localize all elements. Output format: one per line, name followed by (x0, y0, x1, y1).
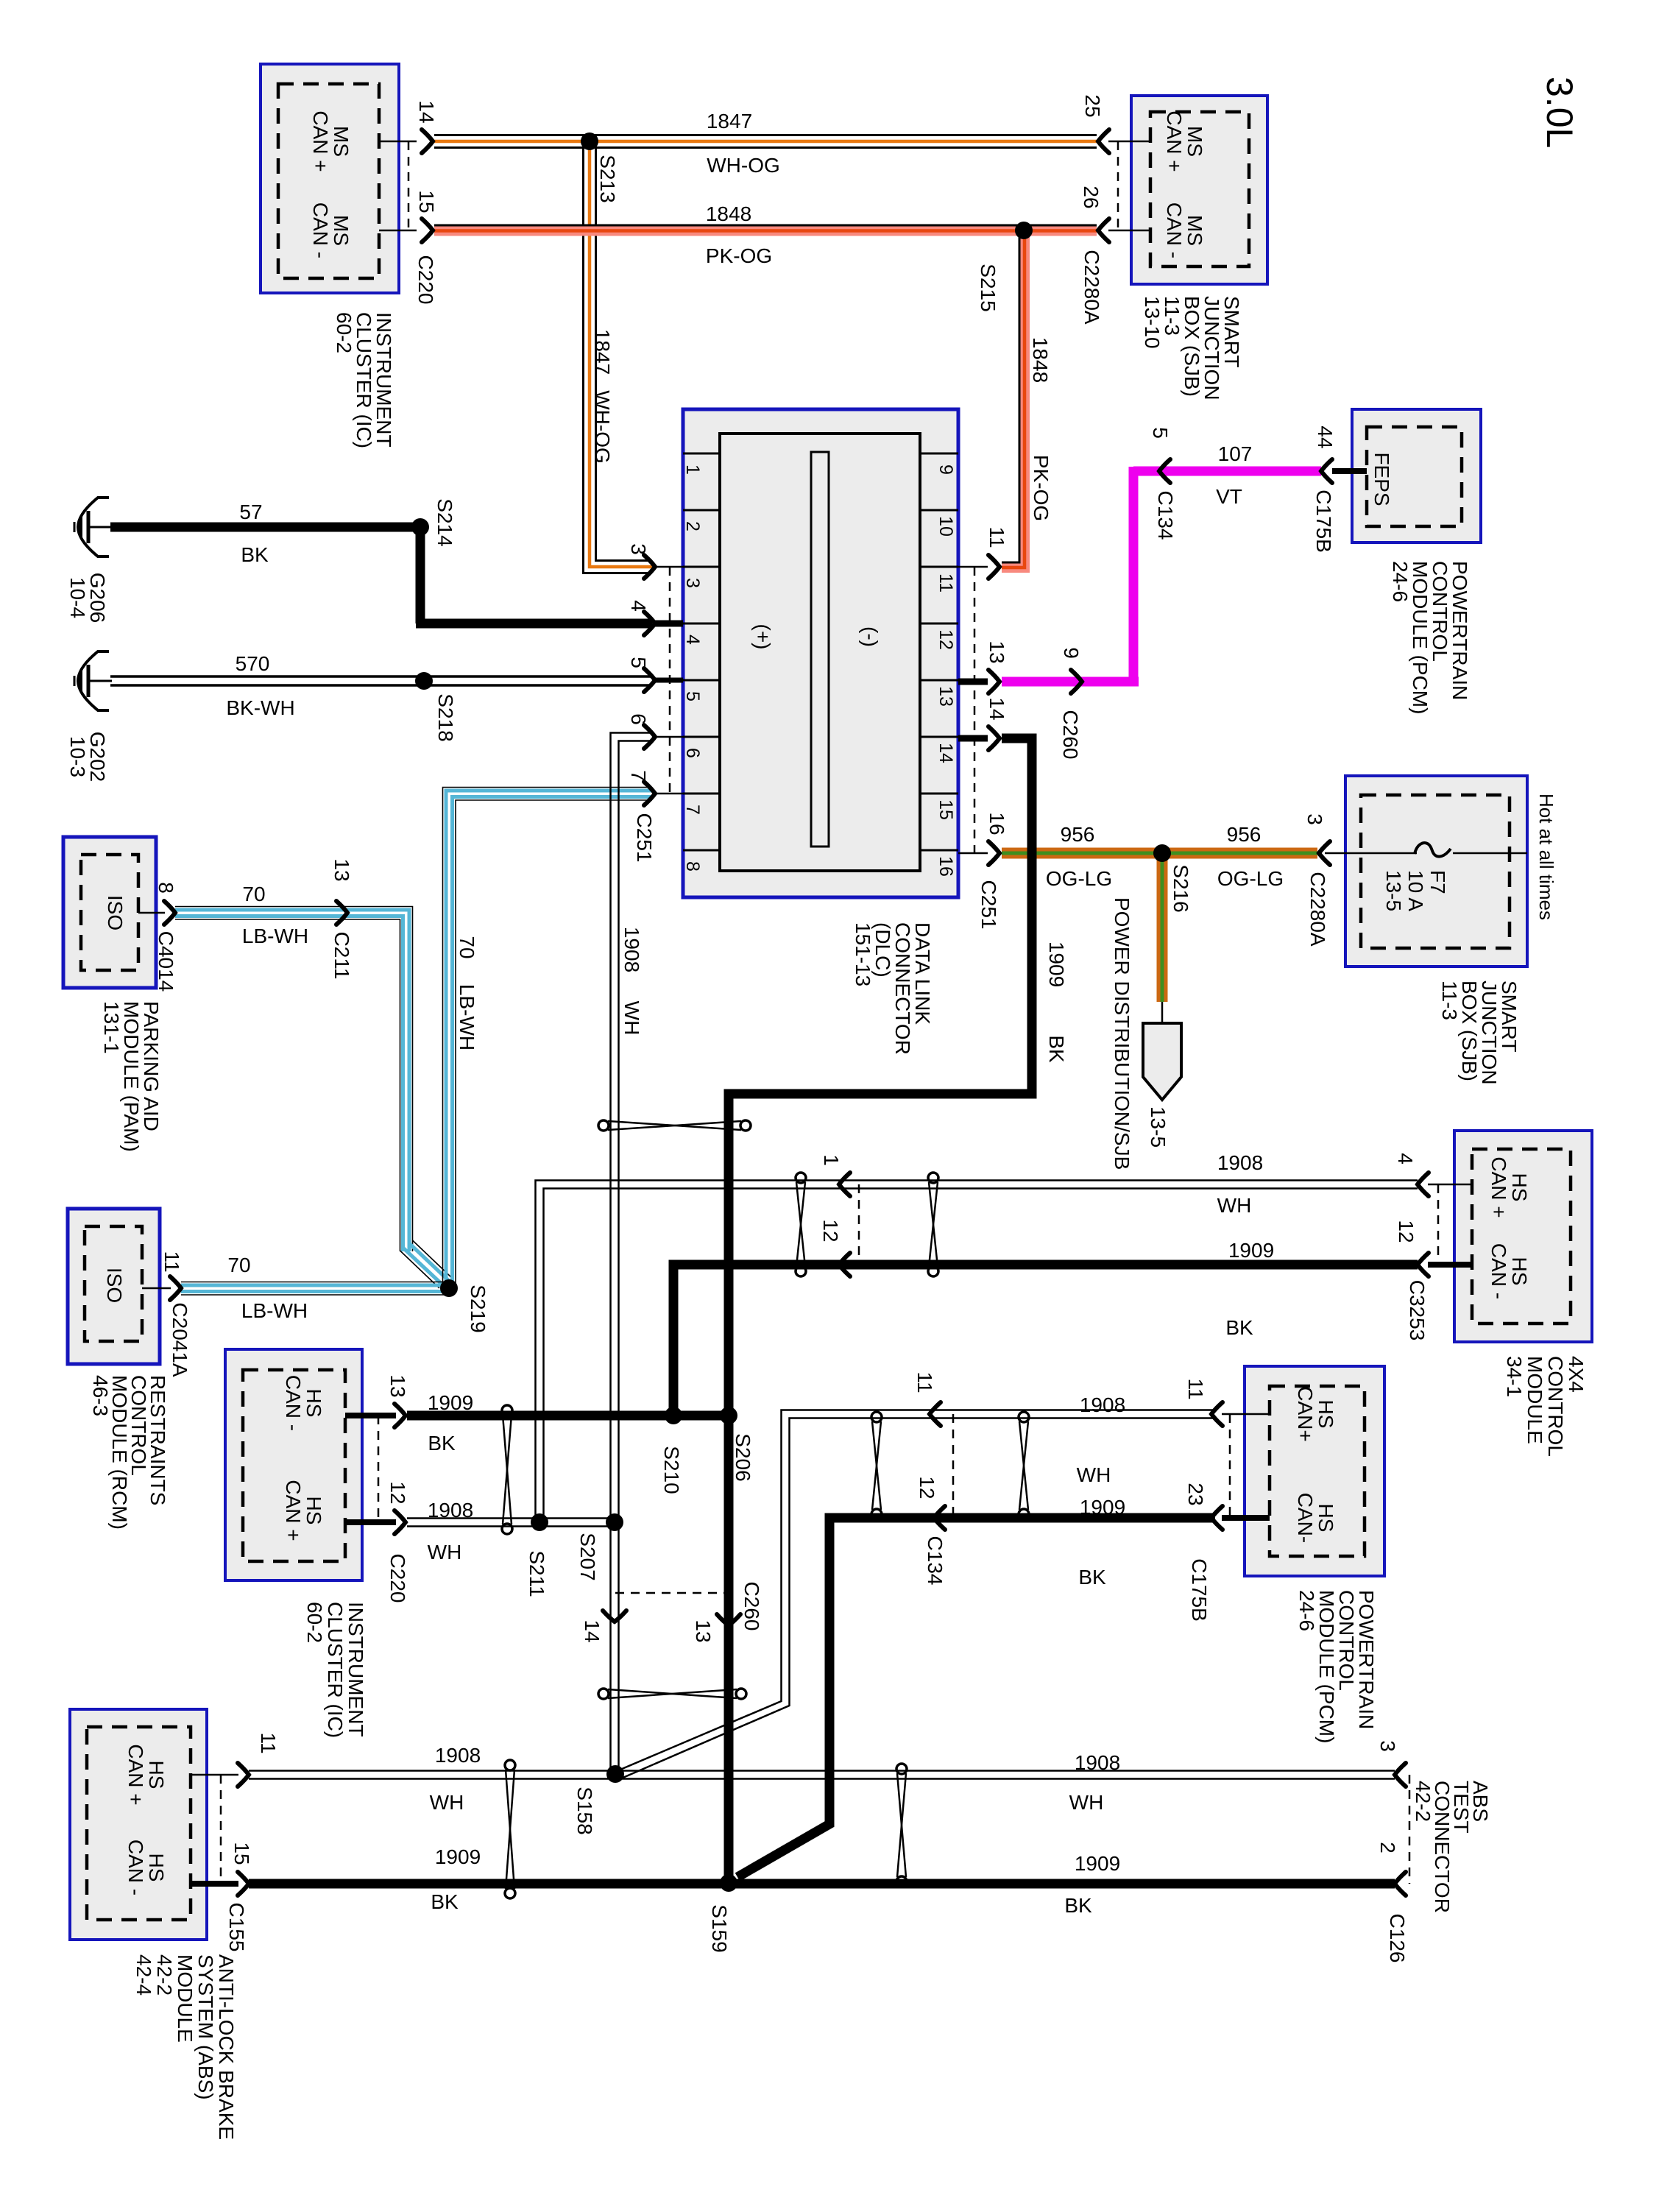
smart junction box SJB MS-CAN box (1131, 96, 1267, 284)
SJB pin 26 stub (1108, 230, 1150, 232)
svg-text:CAN+: CAN+ (1294, 1386, 1317, 1441)
svg-text:CONTROL: CONTROL (1544, 1356, 1567, 1457)
restraints control module RCM ISO box (68, 1209, 160, 1364)
svg-text:S216: S216 (1170, 864, 1192, 912)
svg-text:14: 14 (415, 100, 438, 123)
svg-text:14: 14 (581, 1619, 604, 1642)
svg-text:BK: BK (1064, 1894, 1092, 1917)
wire 1908 WH ABS to ABS test connector (249, 1770, 1395, 1772)
svg-text:CAN -: CAN - (124, 1840, 147, 1895)
twisted pair loops PCM (871, 1412, 882, 1422)
svg-text:14: 14 (986, 697, 1008, 720)
svg-text:5: 5 (682, 691, 703, 702)
svg-text:BK: BK (1045, 1035, 1068, 1063)
svg-text:1909: 1909 (428, 1391, 473, 1414)
svg-text:42-4: 42-4 (132, 1954, 155, 1996)
svg-text:C3253: C3253 (1406, 1280, 1429, 1341)
junction S210 (665, 1407, 682, 1424)
svg-text:LB-WH: LB-WH (456, 984, 478, 1050)
ABS pin 15 stub (191, 1881, 238, 1887)
svg-text:1908: 1908 (620, 927, 643, 972)
svg-text:13: 13 (986, 640, 1008, 663)
svg-text:956: 956 (1061, 823, 1095, 846)
4X4 pin 12 stub (1428, 1262, 1472, 1268)
wire 1909 BK DLC pin14 bus (729, 738, 1032, 1883)
svg-text:11: 11 (986, 526, 1008, 548)
connector C211 arrow on 70 wire (336, 901, 347, 925)
4X4 pin 4 stub (1428, 1184, 1472, 1186)
svg-text:60-2: 60-2 (303, 1602, 326, 1643)
PCM pin 11 stub (1222, 1413, 1270, 1416)
svg-text:CLUSTER (IC): CLUSTER (IC) (324, 1602, 347, 1738)
svg-text:S218: S218 (434, 693, 457, 741)
wire 1908 WH IC to S211 S207 (407, 1517, 615, 1519)
svg-text:2: 2 (1376, 1842, 1399, 1854)
svg-text:WH: WH (428, 1541, 462, 1563)
svg-text:14: 14 (935, 743, 956, 763)
svg-text:F7: F7 (1426, 870, 1449, 894)
wire 107 VT FEPS to DLC pin13 (1133, 467, 1321, 476)
4X4 control module box (1454, 1131, 1592, 1342)
svg-text:8: 8 (155, 882, 177, 894)
DLC left dashed connector line (669, 567, 671, 794)
svg-text:1909: 1909 (435, 1845, 481, 1868)
IC HS pin 12 stub (345, 1519, 396, 1525)
svg-text:3: 3 (627, 543, 650, 555)
svg-text:C175B: C175B (1188, 1558, 1211, 1622)
svg-text:C220: C220 (386, 1554, 409, 1603)
svg-text:SYSTEM (ABS): SYSTEM (ABS) (194, 1954, 217, 2100)
svg-text:151-13: 151-13 (852, 922, 874, 986)
powertrain control module FEPS box (1352, 409, 1481, 543)
svg-text:2: 2 (682, 521, 703, 531)
svg-text:570: 570 (236, 652, 270, 675)
svg-text:CAN +: CAN + (1487, 1156, 1510, 1218)
svg-text:1: 1 (820, 1154, 843, 1166)
svg-text:10-4: 10-4 (66, 577, 89, 618)
svg-text:4X4: 4X4 (1565, 1356, 1588, 1393)
svg-text:1909: 1909 (1045, 941, 1068, 987)
svg-text:Hot at all times: Hot at all times (1535, 794, 1557, 920)
connector C260 arrow down on 1908 (603, 1611, 626, 1622)
smart junction box SJB fuse box (1345, 776, 1527, 967)
svg-text:WH: WH (620, 1001, 643, 1036)
svg-text:CAN -: CAN - (282, 1375, 305, 1431)
wire 1909 BK IC to S210 S206 (407, 1411, 729, 1421)
junction S158 (606, 1765, 624, 1783)
svg-text:PK-OG: PK-OG (1030, 455, 1052, 521)
svg-text:3: 3 (1303, 813, 1326, 825)
parking aid module PAM ISO box (63, 837, 156, 988)
svg-text:ISO: ISO (104, 895, 127, 930)
svg-text:S213: S213 (596, 155, 619, 202)
svg-text:HS: HS (1508, 1257, 1531, 1286)
svg-text:131-1: 131-1 (100, 1001, 123, 1054)
svg-text:CAN +: CAN + (309, 110, 332, 172)
wire 1908 WH DLC pin6 down to S158 (611, 733, 653, 1775)
svg-text:C211: C211 (330, 932, 353, 980)
svg-text:44: 44 (1314, 425, 1337, 448)
data link connector DLC box (683, 409, 958, 897)
junction S159 (720, 1874, 737, 1892)
svg-text:ISO: ISO (103, 1268, 126, 1303)
svg-text:1909: 1909 (1075, 1852, 1120, 1875)
wire 1847 WH-OG vertical S213 to DLC pin3 (596, 147, 653, 561)
svg-text:C220: C220 (414, 255, 437, 305)
svg-text:S158: S158 (573, 1787, 596, 1834)
svg-text:46-3: 46-3 (89, 1375, 112, 1416)
svg-text:BK: BK (1078, 1566, 1106, 1589)
svg-text:1847: 1847 (707, 110, 752, 132)
svg-text:CAN -: CAN - (1487, 1243, 1510, 1299)
junction S218 (415, 672, 433, 690)
svg-text:15: 15 (415, 190, 438, 213)
svg-text:12: 12 (916, 1476, 938, 1499)
svg-text:S207: S207 (576, 1533, 599, 1580)
svg-text:C175B: C175B (1312, 490, 1335, 553)
svg-text:24-6: 24-6 (1389, 561, 1412, 602)
svg-text:1908: 1908 (1217, 1151, 1263, 1174)
svg-text:11: 11 (160, 1251, 183, 1272)
svg-text:6: 6 (682, 748, 703, 758)
svg-text:1908: 1908 (1080, 1393, 1125, 1416)
svg-text:1: 1 (682, 464, 703, 475)
svg-text:11: 11 (935, 573, 956, 593)
svg-text:1908: 1908 (435, 1744, 481, 1767)
svg-text:1848: 1848 (706, 202, 751, 225)
fuse F7 10A (1345, 852, 1417, 855)
IC pin 14 stub (379, 141, 417, 143)
DLC left pin stubs and arrows (655, 566, 683, 568)
wire 1909 BK PCM path (737, 1518, 1215, 1877)
svg-text:4: 4 (627, 600, 650, 612)
wire 70 LB-WH PAM to C211 to S219 (175, 907, 413, 1252)
svg-text:107: 107 (1218, 442, 1253, 465)
svg-text:1848: 1848 (1029, 337, 1052, 383)
arrow 5 C134 on VT wire (1159, 459, 1170, 483)
svg-text:3.0L: 3.0L (1539, 77, 1580, 148)
svg-text:1908: 1908 (1075, 1751, 1120, 1774)
wire 70 LB-WH DLC pin7 down to S219 (443, 788, 653, 1289)
instrument cluster IC HS-CAN box (225, 1349, 362, 1580)
DLC center slot (811, 452, 829, 847)
svg-text:CAN +: CAN + (282, 1480, 305, 1541)
svg-text:PK-OG: PK-OG (706, 244, 772, 267)
svg-text:HS: HS (1314, 1504, 1337, 1533)
junction S206 (720, 1407, 737, 1424)
svg-text:60-2: 60-2 (333, 312, 355, 353)
svg-text:BK: BK (1225, 1316, 1253, 1339)
svg-text:HS: HS (1508, 1173, 1531, 1202)
svg-text:12: 12 (819, 1219, 842, 1242)
svg-text:8: 8 (682, 861, 703, 872)
wire 70 LB-WH S219 to RCM (181, 1282, 449, 1283)
svg-text:956: 956 (1227, 823, 1262, 846)
svg-text:12: 12 (935, 629, 956, 650)
connector C134 arrows (930, 1402, 941, 1426)
junction S214 (411, 518, 429, 536)
wire 956 OG-LG drop to power distribution (1157, 858, 1161, 1002)
svg-text:13: 13 (692, 1619, 715, 1642)
svg-text:C251: C251 (633, 813, 656, 863)
svg-text:15: 15 (230, 1842, 253, 1865)
svg-text:C2280A: C2280A (1306, 872, 1329, 947)
svg-text:16: 16 (935, 856, 956, 877)
wire 1908 WH to 4X4 module (536, 1181, 1418, 1523)
svg-text:C4014: C4014 (155, 931, 177, 992)
svg-text:HS: HS (145, 1854, 168, 1882)
wire 1909 BK ABS to ABS test connector (249, 1879, 1395, 1889)
svg-text:(+): (+) (751, 624, 774, 650)
svg-text:1909: 1909 (1228, 1239, 1274, 1262)
wire 1909 BK S210 to 4X4 module (673, 1265, 1418, 1420)
svg-text:13: 13 (330, 858, 353, 881)
svg-text:13-10: 13-10 (1141, 296, 1164, 349)
svg-text:ANTI-LOCK BRAKE: ANTI-LOCK BRAKE (215, 1954, 238, 2140)
svg-text:WH: WH (1077, 1463, 1111, 1486)
svg-text:HS: HS (302, 1497, 325, 1525)
twisted pair loop horizontal upper (598, 1120, 609, 1131)
svg-text:MS: MS (1183, 215, 1206, 246)
svg-text:12: 12 (386, 1481, 409, 1504)
svg-text:12: 12 (1395, 1220, 1418, 1243)
svg-text:WH-OG: WH-OG (707, 154, 780, 177)
svg-text:42-2: 42-2 (1412, 1781, 1434, 1822)
svg-text:POWER DISTRIBUTION/SJB: POWER DISTRIBUTION/SJB (1111, 897, 1133, 1170)
svg-text:4: 4 (1394, 1153, 1417, 1165)
svg-text:23: 23 (1184, 1483, 1207, 1505)
svg-text:70: 70 (242, 883, 265, 905)
svg-text:MS: MS (330, 215, 353, 246)
svg-text:9: 9 (935, 464, 956, 475)
svg-text:C126: C126 (1386, 1914, 1409, 1963)
DLC right dashed connector line (974, 567, 976, 853)
svg-text:BK: BK (431, 1890, 459, 1913)
svg-text:C155: C155 (225, 1903, 248, 1952)
twisted pair loop horizontal lower (598, 1689, 609, 1699)
svg-text:10 A: 10 A (1404, 870, 1427, 911)
svg-text:25: 25 (1081, 94, 1104, 117)
junction S216 (1153, 844, 1171, 862)
svg-text:S219: S219 (467, 1285, 489, 1332)
junction S213 (581, 132, 598, 150)
svg-text:WH: WH (1069, 1791, 1104, 1814)
FEPS pin 44 stub (1332, 468, 1367, 474)
svg-text:LB-WH: LB-WH (242, 925, 308, 947)
svg-text:13: 13 (935, 686, 956, 707)
connector C260 arrow on VT wire (1071, 670, 1082, 693)
svg-text:1908: 1908 (428, 1499, 473, 1522)
svg-text:C134: C134 (1154, 491, 1177, 540)
connector C211 arrows 4X4 wires (839, 1173, 850, 1196)
svg-text:C251: C251 (977, 880, 1000, 930)
svg-text:OG-LG: OG-LG (1217, 867, 1284, 890)
svg-text:S210: S210 (660, 1446, 683, 1494)
svg-text:MODULE: MODULE (1524, 1356, 1546, 1444)
anti-lock brake system ABS box (70, 1709, 207, 1940)
svg-text:7: 7 (627, 770, 650, 782)
wire 1848 PK-OG vertical S215 to DLC pin11 (1002, 236, 1025, 568)
svg-text:4: 4 (682, 635, 703, 645)
instrument cluster IC MS-CAN box (261, 64, 399, 293)
svg-text:LB-WH: LB-WH (241, 1299, 308, 1322)
svg-text:42-2: 42-2 (153, 1954, 176, 1996)
svg-text:MS: MS (330, 126, 353, 157)
svg-text:24-6: 24-6 (1295, 1590, 1318, 1631)
wire 1848 PK-OG IC to SJB (434, 227, 1097, 236)
svg-text:VT: VT (1216, 485, 1242, 508)
svg-text:70: 70 (227, 1254, 250, 1276)
wire 57 BK (110, 523, 420, 532)
svg-text:C2280A: C2280A (1080, 250, 1103, 325)
svg-text:BK: BK (428, 1432, 456, 1455)
svg-text:S211: S211 (526, 1550, 548, 1597)
svg-text:HS: HS (302, 1389, 325, 1418)
svg-text:C2041A: C2041A (169, 1302, 191, 1377)
svg-text:S159: S159 (708, 1904, 731, 1952)
svg-text:1909: 1909 (1080, 1496, 1125, 1519)
ground G202 (78, 651, 109, 710)
PAM pin 8 stub (138, 912, 165, 914)
DLC pin cell divider lines (683, 453, 720, 455)
powertrain control module PCM HS-CAN box (1245, 1366, 1384, 1576)
svg-text:9: 9 (1060, 647, 1083, 659)
IC C220 dashed line (408, 141, 410, 230)
twisted pair loop near S211 (502, 1405, 512, 1416)
svg-text:WH: WH (430, 1791, 464, 1814)
wire 1908 WH PCM path (617, 1410, 1215, 1772)
svg-text:HS: HS (145, 1761, 168, 1789)
svg-text:FEPS: FEPS (1370, 452, 1393, 506)
RCM pin 11 stub (142, 1287, 171, 1290)
svg-text:BK-WH: BK-WH (226, 696, 294, 719)
svg-text:(-): (-) (859, 626, 882, 647)
svg-text:10: 10 (935, 516, 956, 537)
svg-text:BK: BK (241, 543, 269, 566)
svg-text:57: 57 (239, 501, 262, 523)
junction S207 (606, 1513, 623, 1531)
twisted pair loops 4X4 (796, 1173, 806, 1183)
svg-text:MODULE: MODULE (174, 1954, 197, 2043)
svg-text:3: 3 (1376, 1740, 1399, 1752)
svg-text:13-5: 13-5 (1147, 1106, 1170, 1148)
svg-text:CAN -: CAN - (309, 202, 332, 258)
ABS test connector arrows (1395, 1763, 1406, 1787)
wire 570 BK-WH (110, 675, 652, 678)
svg-text:HS: HS (1314, 1400, 1337, 1429)
svg-text:26: 26 (1080, 185, 1103, 208)
DLC right pin stubs and arrows (958, 566, 988, 568)
svg-text:WH: WH (1217, 1194, 1252, 1217)
svg-text:INSTRUMENT: INSTRUMENT (344, 1602, 367, 1737)
svg-text:16: 16 (986, 812, 1008, 835)
svg-text:5: 5 (1149, 427, 1172, 439)
svg-text:34-1: 34-1 (1503, 1356, 1526, 1397)
svg-text:CAN-: CAN- (1294, 1493, 1317, 1543)
svg-text:C260: C260 (740, 1582, 763, 1631)
svg-text:11: 11 (913, 1371, 936, 1393)
svg-text:10-3: 10-3 (66, 736, 89, 777)
svg-text:CAN +: CAN + (1163, 110, 1186, 172)
power distribution arrow symbol (1143, 1023, 1181, 1100)
junction S211 (531, 1513, 548, 1531)
wire 1847 WH-OG IC to SJB (434, 134, 1097, 136)
svg-text:6: 6 (627, 713, 650, 725)
svg-text:11-3: 11-3 (1438, 980, 1461, 1020)
PCM pin 23 stub (1222, 1515, 1270, 1521)
ground G206 (78, 498, 109, 556)
SJB pin 25 stub (1108, 141, 1150, 143)
ABS pin 11 stub (191, 1774, 238, 1776)
wire 956 OG-LG DLC pin16 to SJB fuse (1002, 848, 1317, 852)
svg-text:CAN +: CAN + (124, 1744, 147, 1805)
junction S215 (1015, 222, 1033, 239)
svg-text:OG-LG: OG-LG (1046, 867, 1112, 890)
svg-text:S215: S215 (977, 264, 999, 311)
twisted pair loops bottom (505, 1760, 515, 1770)
svg-text:C134: C134 (924, 1536, 946, 1586)
svg-text:S214: S214 (434, 498, 456, 546)
svg-text:5: 5 (627, 657, 650, 668)
svg-text:7: 7 (682, 805, 703, 815)
svg-text:3: 3 (682, 578, 703, 588)
svg-text:13-5: 13-5 (1382, 870, 1405, 911)
svg-text:70: 70 (456, 936, 478, 958)
svg-text:MS: MS (1183, 126, 1206, 157)
DLC inner box (720, 434, 920, 871)
IC pin 15 stub (379, 230, 417, 232)
svg-text:15: 15 (935, 799, 956, 820)
svg-text:13: 13 (386, 1374, 409, 1397)
svg-text:S206: S206 (732, 1433, 754, 1481)
svg-text:WH-OG: WH-OG (591, 390, 614, 464)
svg-text:11: 11 (1184, 1378, 1207, 1399)
svg-text:11: 11 (257, 1732, 280, 1753)
connector C260 arrow down on 1909 bus (717, 1614, 740, 1625)
svg-text:CAN -: CAN - (1163, 202, 1186, 258)
SJB fuse pin 3 arrow (1319, 841, 1330, 865)
IC HS pin 13 stub (345, 1413, 396, 1418)
junction S219 (440, 1279, 458, 1297)
svg-text:C260: C260 (1059, 710, 1082, 760)
svg-text:1847: 1847 (591, 329, 614, 375)
SJB C2280A dashed line (1117, 141, 1119, 230)
